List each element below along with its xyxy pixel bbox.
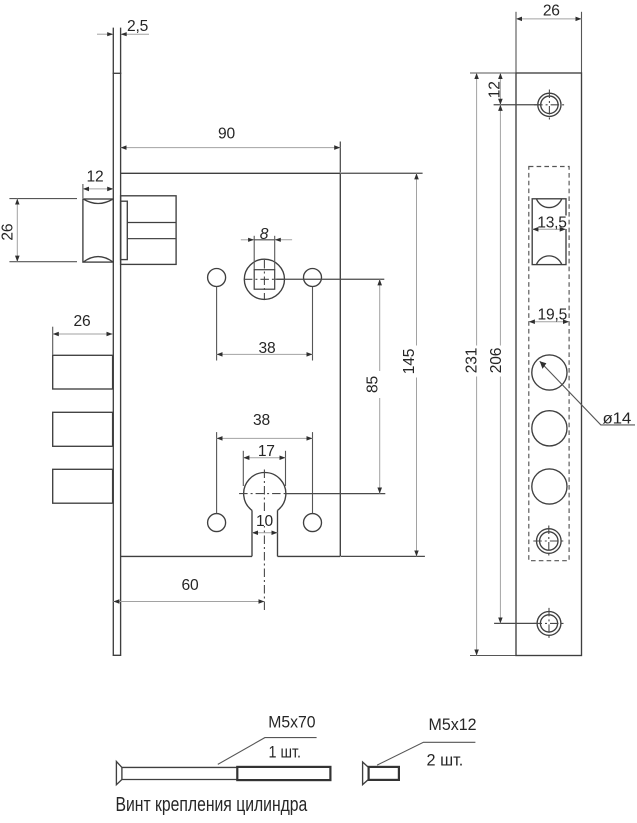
svg-text:85: 85: [364, 376, 381, 393]
dim 145: [416, 173, 418, 556]
dim 26: [516, 18, 582, 20]
dashed cutout rect: [529, 167, 569, 561]
screw M5x12 thread: [369, 767, 399, 780]
svg-text:ø14: ø14: [603, 410, 632, 427]
dim 17 ext lines: [242, 451, 244, 486]
svg-text:12: 12: [87, 169, 104, 186]
dim 12 latch width: [82, 184, 84, 198]
dim 90: [339, 142, 341, 173]
svg-text:90: 90: [218, 125, 235, 142]
dim 26 deadbolt ext line: [52, 327, 54, 355]
top small circle right: [304, 269, 322, 287]
svg-text:19,5: 19,5: [538, 307, 568, 324]
dim 38 lower: [217, 437, 313, 439]
svg-text:60: 60: [182, 577, 199, 594]
faceplate side view: [113, 28, 122, 656]
svg-text:M5x70: M5x70: [268, 714, 315, 732]
dim 19,5: [535, 308, 569, 322]
svg-text:26: 26: [74, 313, 91, 330]
svg-text:2 шт.: 2 шт.: [427, 752, 464, 770]
follower circle: [244, 259, 284, 299]
dim 26 latch height: [16, 199, 18, 262]
dim 8 line + outside arrows: [241, 239, 254, 241]
top edge ext line: [470, 72, 516, 74]
follower center line to 85 dim: [275, 278, 384, 280]
lower small circle left: [208, 514, 226, 532]
cylinder hole keyhole: [244, 472, 286, 556]
svg-text:231: 231: [464, 348, 481, 373]
dim 85: [379, 279, 381, 493]
dim 26 ext lines up: [515, 12, 517, 73]
svg-text:12: 12: [486, 81, 503, 98]
dim 26 deadbolt: [53, 333, 113, 335]
svg-text:13,5: 13,5: [537, 214, 567, 231]
front latch cutout: [532, 199, 566, 265]
dim 206: [499, 105, 501, 624]
dim 231: [476, 73, 478, 656]
deadbolt piece 2: [53, 412, 113, 446]
svg-text:M5x12: M5x12: [429, 716, 477, 734]
screw M5x70 head: [116, 762, 122, 785]
svg-text:38: 38: [253, 412, 270, 429]
dim 38 top: [217, 353, 313, 355]
leader o14: [540, 361, 635, 425]
dim 145 ext lines: [341, 172, 423, 174]
dim 12 right view: [499, 73, 501, 105]
dim 13,5: [537, 216, 568, 230]
faceplate top joint tick: [113, 72, 122, 74]
faceplate front outline: [516, 73, 582, 656]
screw M5x70 shank: [122, 766, 237, 768]
svg-text:206: 206: [488, 348, 505, 373]
svg-text:10: 10: [256, 513, 273, 530]
latch tail divisions: [127, 222, 176, 224]
hole circle 1: [532, 355, 567, 390]
svg-text:2,5: 2,5: [127, 18, 149, 35]
ext line from left circle down: [216, 287, 218, 361]
front latch bevel arcs: [536, 199, 561, 265]
middle screw hole: [537, 529, 562, 554]
bottom edge ext line: [470, 655, 516, 657]
leader M5x12: [377, 742, 475, 765]
svg-text:145: 145: [401, 348, 418, 374]
bottom screw hole: [537, 612, 561, 636]
top screw hole: [538, 93, 561, 116]
spindle square sides + extensions: [253, 236, 255, 270]
lower small circle right: [304, 514, 322, 532]
ext line from right circle down: [312, 287, 314, 361]
dim 10: [252, 532, 278, 534]
dim 26 latch height extension lines: [9, 198, 77, 200]
screw M5x12 head: [363, 762, 369, 785]
leader M5x70: [218, 738, 317, 765]
svg-text:8: 8: [260, 226, 269, 243]
latch mounting plate: [121, 201, 128, 259]
lock body outline with cylinder slot gap: [121, 173, 341, 556]
svg-text:26: 26: [0, 224, 16, 241]
hole circle 2: [532, 411, 567, 446]
svg-text:Винт крепления цилиндра: Винт крепления цилиндра: [116, 794, 308, 816]
ext line at bottom screw center: [494, 622, 537, 624]
latch bolt head (side): [83, 199, 113, 262]
deadbolt piece 1: [53, 355, 113, 389]
svg-text:26: 26: [543, 2, 560, 19]
dim 2,5 outside arrows: [107, 32, 113, 36]
ext lines up from lower circles: [216, 432, 218, 513]
dim 17: [243, 457, 285, 459]
follower v centerline: [263, 260, 265, 299]
svg-text:1 шт.: 1 шт.: [269, 744, 302, 762]
svg-text:38: 38: [259, 340, 276, 357]
screw M5x70 thread: [237, 767, 330, 780]
cylinder v centerline: [263, 470, 265, 611]
svg-text:17: 17: [258, 443, 275, 460]
follower h centerline: [244, 278, 285, 280]
top small circle left: [208, 269, 226, 287]
deadbolt piece 3: [53, 469, 113, 503]
cylinder h centerline: [239, 493, 286, 495]
dim 2,5 line stubs: [97, 33, 113, 35]
ext line at screw center: [494, 104, 541, 106]
hole circle 3: [532, 469, 567, 504]
latch bevel arcs: [83, 199, 113, 262]
cylinder center line to 85 dim: [286, 493, 385, 495]
dim 60: [113, 601, 264, 603]
latch tail block: [121, 196, 177, 265]
